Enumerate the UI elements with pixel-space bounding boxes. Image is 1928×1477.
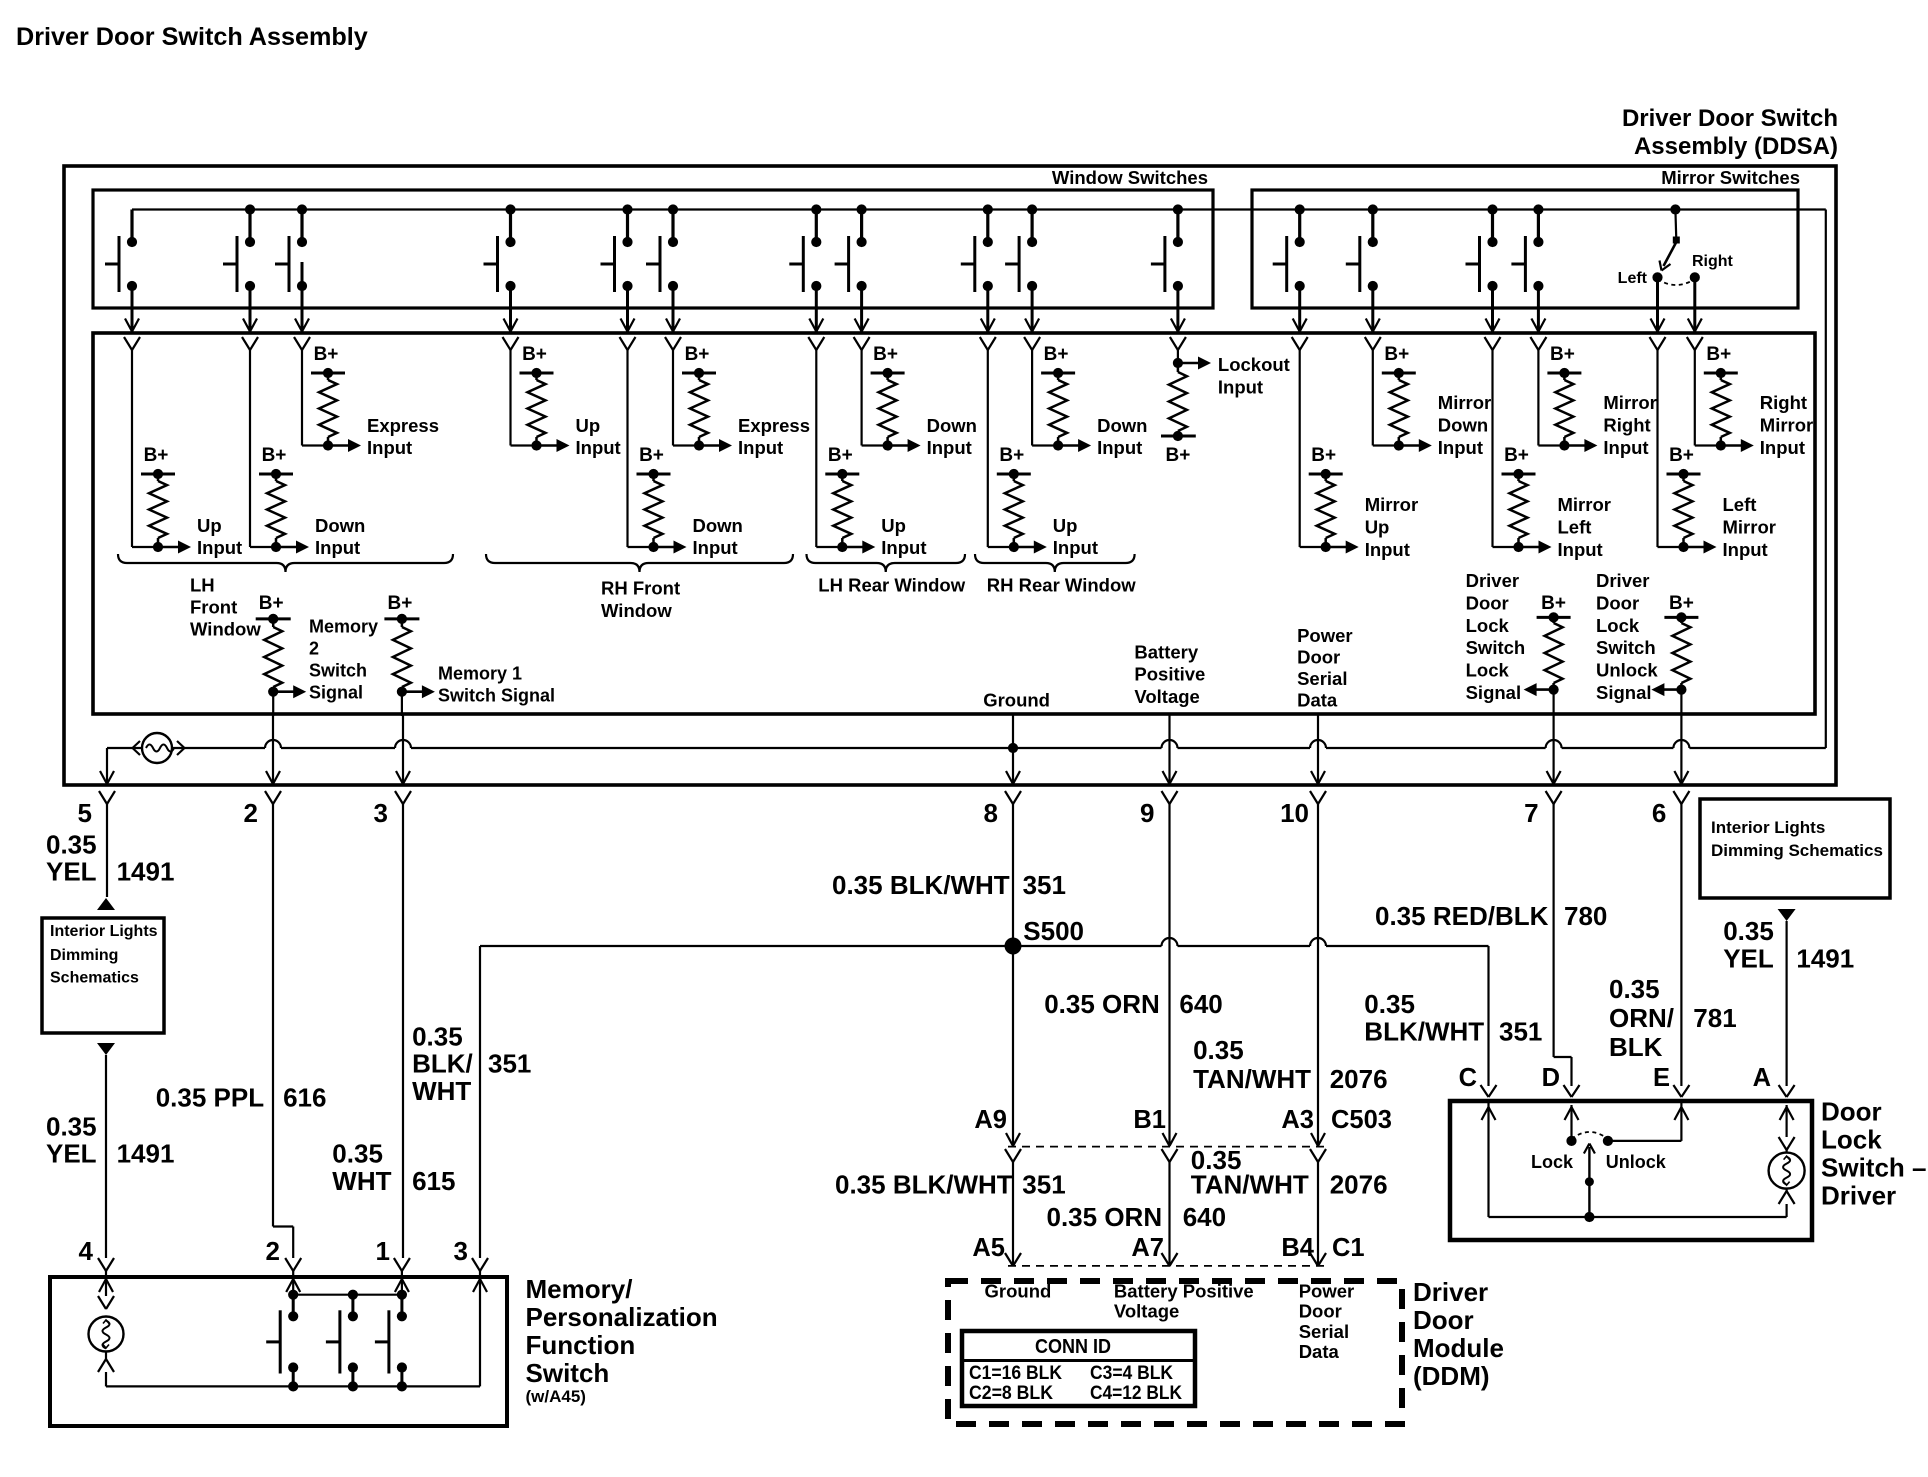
svg-text:Input: Input [1438, 437, 1483, 458]
svg-text:640: 640 [1179, 989, 1222, 1019]
label CONN ID [1035, 1336, 1111, 1358]
wire pin 7 stub [1552, 716, 1554, 785]
DDSA outer box [64, 166, 1836, 785]
label Down Input [315, 515, 365, 558]
label B1 [1133, 1106, 1166, 1134]
wire 0.35 YEL 1491 upper [106, 804, 108, 897]
svg-text:B+: B+ [1706, 344, 1731, 365]
label Up Input [197, 515, 242, 558]
svg-text:Positive: Positive [1134, 664, 1205, 685]
label Mirror Switches [1661, 167, 1800, 188]
svg-text:Mirror: Mirror [1603, 392, 1656, 413]
svg-text:7: 7 [1524, 798, 1538, 828]
label Battery Positive Voltage (DDM) [1114, 1280, 1254, 1321]
svg-text:BLK: BLK [1609, 1032, 1663, 1062]
svg-text:Input: Input [693, 537, 738, 558]
svg-text:ORN/: ORN/ [1609, 1003, 1674, 1033]
svg-text:Switch: Switch [309, 660, 367, 680]
wire pin 2 stub [272, 714, 274, 785]
svg-text:1491: 1491 [117, 857, 175, 887]
mirror switches box [1252, 190, 1798, 308]
label 0.35 ORN 640 lower [1047, 1202, 1227, 1232]
svg-text:8: 8 [984, 798, 998, 828]
wire E to unlock contact [1612, 1103, 1688, 1141]
label 0.35 BLK/WHT 351 mid [835, 1170, 1066, 1200]
svg-text:B+: B+ [1504, 445, 1529, 466]
svg-text:B+: B+ [1311, 445, 1336, 466]
wire memory pin 2 entry [286, 1271, 300, 1295]
svg-text:C1=16 BLK: C1=16 BLK [969, 1363, 1062, 1384]
label 0.35 PPL 616 [156, 1083, 327, 1113]
svg-text:A9: A9 [974, 1106, 1007, 1134]
svg-text:Lockout: Lockout [1218, 354, 1290, 375]
LH rear down switch S8 [835, 204, 867, 292]
svg-text:Signal: Signal [1596, 682, 1652, 703]
B+ terminal for R17 right mirror input [1704, 344, 1738, 378]
svg-text:780: 780 [1564, 901, 1607, 931]
svg-text:WHT: WHT [412, 1076, 471, 1106]
DDSA pin 8 [984, 771, 1021, 828]
resistor R10 down input RH rear [1049, 373, 1067, 446]
resistor R16 left mirror input [1675, 474, 1693, 547]
conn id row C4=12 BLK [1090, 1383, 1182, 1404]
connector pin A3 [1310, 1133, 1326, 1162]
wire from mirror right switch S15 into components area [1530, 286, 1546, 350]
svg-text:Window Switches: Window Switches [1052, 167, 1208, 188]
label Driver Door Switch Assembly (DDSA) [1622, 105, 1838, 160]
svg-text:6: 6 [1652, 798, 1666, 828]
wire 0.35 BLK/WHT 351 to C [1487, 946, 1489, 1086]
svg-text:C4=12 BLK: C4=12 BLK [1090, 1383, 1182, 1404]
wire memory top bus [288, 1290, 407, 1300]
svg-text:4: 4 [79, 1236, 94, 1266]
svg-text:S500: S500 [1023, 916, 1084, 946]
svg-text:Left: Left [1558, 517, 1592, 538]
B+ terminal for memory 1 signal resistor [384, 593, 419, 624]
svg-text:5: 5 [78, 798, 92, 828]
wire pin 6 stub [1680, 716, 1682, 785]
wire from RH front down switch S5 into components area [620, 286, 636, 350]
svg-text:Unlock: Unlock [1606, 1152, 1667, 1172]
svg-text:Right: Right [1603, 415, 1650, 436]
wire lamp to common [1779, 1189, 1795, 1217]
svg-text:Input: Input [1218, 376, 1263, 397]
resistor R15 mirror right input [1555, 373, 1573, 446]
wire pin 10 stub [1317, 714, 1319, 785]
svg-text:LH Rear Window: LH Rear Window [818, 574, 965, 595]
B+ terminal for R10 down input RH rear [1041, 344, 1075, 378]
off-page arrow to interior lights dimming (right) [1778, 909, 1796, 921]
DDSA pin 9 [1140, 771, 1177, 828]
memory switch SW3 [375, 1295, 407, 1392]
B+ terminal for R8 down input LH rear [871, 344, 905, 378]
wire R17 right mirror input output [1695, 350, 1754, 452]
label Right Mirror Input [1760, 392, 1813, 458]
wire R4 up input RH front output [511, 350, 570, 452]
B+ terminal for lockout resistor [1161, 431, 1196, 466]
wire from RH front up switch S4 into components area [503, 286, 519, 350]
CONN ID table box [962, 1331, 1195, 1406]
wire from LH front up switch S1 into components area [124, 286, 140, 350]
svg-text:Power: Power [1297, 625, 1353, 646]
svg-text:B+: B+ [1669, 593, 1694, 614]
pin D [1542, 1064, 1580, 1097]
label Down Input [927, 415, 977, 458]
svg-text:Front: Front [190, 597, 237, 618]
wire ground bus right drop [1825, 210, 1827, 749]
resistor R5 down input RH front [645, 474, 663, 547]
memory switch SW1 [266, 1295, 298, 1392]
wire 0.35 YEL 1491 lower [105, 1055, 107, 1258]
B+ terminal for door lock signal resistor [1537, 593, 1571, 622]
wire R10 down input RH rear output [1032, 350, 1091, 452]
resistor R9 up input RH rear [1005, 474, 1023, 547]
svg-text:Assembly (DDSA): Assembly (DDSA) [1634, 133, 1838, 160]
label 0.35 BLK/WHT 351 (memory drop) [412, 1022, 531, 1106]
svg-text:D: D [1542, 1064, 1560, 1092]
wire 0.35 PPL 616 [273, 804, 293, 1258]
svg-text:351: 351 [1023, 870, 1066, 900]
label Power Door Serial Data (DDM) [1299, 1280, 1355, 1362]
svg-text:0.35: 0.35 [46, 1112, 97, 1142]
label Driver Door Lock Switch Unlock Signal [1596, 570, 1658, 703]
components box [93, 333, 1815, 714]
driver door module box (dashed) [948, 1281, 1402, 1424]
svg-text:YEL: YEL [46, 1139, 97, 1169]
wire 0.35 RED/BLK 780 [1554, 804, 1572, 1086]
label Lock [1531, 1152, 1574, 1172]
B+ terminal for R13 mirror down input [1382, 344, 1416, 378]
svg-text:C1: C1 [1332, 1234, 1365, 1262]
svg-text:Door: Door [1466, 592, 1509, 613]
resistor R13 mirror down input [1390, 373, 1408, 446]
svg-text:CONN ID: CONN ID [1035, 1336, 1111, 1358]
label 0.35 YEL 1491 lower [46, 1112, 174, 1169]
svg-text:Unlock: Unlock [1596, 660, 1658, 681]
svg-text:Lock: Lock [1596, 615, 1640, 636]
wire R2 down input LH front output [250, 350, 309, 554]
label Memory 1 Switch Signal [438, 663, 555, 705]
svg-text:Ground: Ground [985, 1280, 1052, 1301]
svg-text:351: 351 [1499, 1017, 1542, 1047]
svg-text:Mirror: Mirror [1365, 494, 1418, 515]
svg-text:Switch –: Switch – [1821, 1153, 1926, 1183]
svg-text:TAN/WHT: TAN/WHT [1193, 1064, 1311, 1094]
B+ terminal for R7 up input LH rear [825, 445, 859, 479]
resistor R door-unlock signal [1672, 617, 1690, 689]
B+ terminal for memory 2 signal resistor [256, 593, 291, 624]
svg-text:Door: Door [1413, 1305, 1474, 1335]
svg-text:10: 10 [1280, 798, 1309, 828]
wire common bus in door lock box [1589, 1216, 1786, 1218]
door lock lever [1584, 1144, 1595, 1223]
svg-text:3: 3 [454, 1236, 468, 1266]
wire B1-A7 0.35 ORN [1168, 1162, 1170, 1266]
LH rear up switch S7 [789, 204, 821, 292]
B+ terminal for R1 up input LH front [141, 445, 175, 479]
conn id row C2=8 BLK [969, 1383, 1053, 1404]
svg-text:Input: Input [576, 437, 621, 458]
svg-text:Schematics: Schematics [50, 970, 139, 987]
svg-text:Input: Input [1603, 437, 1648, 458]
label Express Input [738, 415, 810, 458]
wire from mirror select left contact into components area [1650, 277, 1666, 350]
svg-text:RH Rear Window: RH Rear Window [987, 574, 1136, 595]
window switches box [93, 190, 1213, 308]
resistor R4 up input RH front [528, 373, 546, 446]
B+ terminal for R16 left mirror input [1667, 445, 1701, 479]
svg-text:Mirror Switches: Mirror Switches [1661, 167, 1800, 188]
svg-text:B+: B+ [873, 344, 898, 365]
svg-text:0.35: 0.35 [1193, 1035, 1244, 1065]
B+ terminal for R3 express input LH front [311, 344, 345, 378]
label RH Front Window [601, 578, 680, 622]
wire R16 left mirror input output [1658, 350, 1717, 554]
B+ terminal for R12 mirror up input [1309, 445, 1343, 479]
wire pin 8 stub [1012, 714, 1014, 785]
svg-text:0.35 ORN: 0.35 ORN [1044, 989, 1160, 1019]
svg-text:Personalization: Personalization [526, 1302, 718, 1332]
label 0.35 RED/BLK 780 [1375, 901, 1607, 931]
door lock switch box [1450, 1101, 1812, 1240]
svg-text:Battery: Battery [1134, 641, 1198, 662]
label Ground (DDSA pin 8) [983, 690, 1050, 711]
svg-text:Up: Up [1365, 517, 1390, 538]
connector pin B1 [1162, 1133, 1178, 1162]
wire door lock signal output [1524, 683, 1559, 716]
resistor memory 2 switch signal [264, 619, 282, 692]
svg-text:Interior Lights: Interior Lights [50, 923, 158, 940]
svg-text:Input: Input [1365, 539, 1410, 560]
resistor R17 right mirror input [1712, 373, 1730, 446]
DDSA pin 2 [244, 771, 281, 828]
wire R15 mirror right input output [1538, 350, 1597, 452]
svg-text:Serial: Serial [1297, 668, 1347, 689]
wire memory pin 4 to lamp [98, 1271, 114, 1309]
label 0.35 ORN/BLK 781 [1609, 974, 1737, 1062]
svg-text:Lock: Lock [1466, 615, 1510, 636]
lockout switch S11 [1151, 204, 1183, 292]
label A3 [1281, 1106, 1314, 1134]
label Interior Lights Dimming Schematics (left) [50, 923, 158, 987]
label 0.35 TAN/WHT 2076 upper [1193, 1035, 1387, 1094]
wire from mirror down switch S13 into components area [1365, 286, 1381, 350]
svg-text:B+: B+ [639, 445, 664, 466]
label Driver Door Module (DDM) [1413, 1277, 1504, 1391]
svg-text:0.35 RED/BLK: 0.35 RED/BLK [1375, 901, 1549, 931]
svg-text:Door: Door [1299, 1301, 1342, 1322]
wire C inside door lock box [1482, 1103, 1590, 1217]
label Up Input [881, 515, 926, 558]
resistor R2 down input LH front [267, 474, 285, 547]
wire from RH rear down switch S10 into components area [1024, 286, 1040, 350]
svg-text:B+: B+ [144, 445, 169, 466]
memory switch SW2 [326, 1295, 358, 1392]
svg-text:0.35: 0.35 [1723, 916, 1774, 946]
wire from mirror left switch S14 into components area [1485, 286, 1501, 350]
label Up Input [1053, 515, 1098, 558]
svg-text:Memory: Memory [309, 616, 378, 636]
wire R14 mirror left input output [1493, 350, 1552, 554]
label 0.35 TAN/WHT 2076 lower [1191, 1145, 1388, 1199]
mirror left switch S14 [1466, 204, 1498, 292]
svg-text:Lock: Lock [1531, 1152, 1574, 1172]
mirror right switch S15 [1511, 204, 1543, 292]
svg-text:B+: B+ [1044, 344, 1069, 365]
wire 0.35 TAN/WHT 2076 serial run [1317, 804, 1319, 1145]
wire from LH front down switch S2 into components area [242, 286, 258, 350]
svg-text:LH: LH [190, 575, 215, 596]
svg-text:Dimming: Dimming [50, 947, 118, 964]
svg-text:Input: Input [315, 537, 360, 558]
wire memory pin 3 to bus [473, 1271, 487, 1386]
brace LH rear window group [807, 554, 966, 572]
svg-text:Switch: Switch [1596, 637, 1656, 658]
label A9 [974, 1106, 1007, 1134]
LH front express switch S3 [275, 204, 307, 292]
wire memory pin 3 drop 0.35 BLK/WHT 351 [479, 946, 481, 1258]
pin E [1653, 1064, 1689, 1097]
illumination lamp in ground feed [133, 733, 185, 763]
wire S500 splice run [480, 938, 1489, 946]
DDSA pin 3 [374, 771, 411, 828]
label Interior Lights Dimming Schematics (right) [1711, 818, 1883, 860]
svg-text:Up: Up [576, 415, 601, 436]
connector row C1 dashed line [1008, 1265, 1325, 1267]
wire R13 mirror down input output [1373, 350, 1432, 452]
svg-text:Left: Left [1618, 270, 1648, 287]
svg-text:Input: Input [367, 437, 412, 458]
svg-text:Driver Door Switch: Driver Door Switch [1622, 105, 1838, 132]
svg-text:615: 615 [412, 1166, 455, 1196]
svg-text:Input: Input [1558, 539, 1603, 560]
resistor R6 express input RH front [690, 373, 708, 446]
svg-text:TAN/WHT: TAN/WHT [1191, 1170, 1309, 1200]
svg-text:9: 9 [1140, 798, 1154, 828]
wire pin 5 stub [106, 748, 108, 785]
svg-text:Window: Window [190, 619, 261, 640]
memory personalization function switch box [50, 1277, 507, 1426]
wire from lockout switch S11 into components area [1170, 286, 1186, 350]
svg-text:Interior Lights: Interior Lights [1711, 818, 1825, 837]
wire 0.35 ORN 640 battery run [1168, 804, 1170, 1145]
svg-text:Input: Input [1723, 539, 1768, 560]
wire lockout input output [1173, 350, 1211, 370]
connector pin A5 [1005, 1253, 1021, 1266]
svg-text:B+: B+ [828, 445, 853, 466]
svg-text:Right: Right [1692, 253, 1734, 270]
wire memory 2 switch signal output [268, 685, 306, 716]
svg-text:Express: Express [367, 415, 439, 436]
label Ground (DDM) [985, 1280, 1052, 1301]
memory illumination lamp [89, 1317, 124, 1352]
svg-text:E: E [1653, 1064, 1670, 1092]
svg-text:Driver: Driver [1413, 1277, 1488, 1307]
wire from RH rear up switch S9 into components area [980, 286, 996, 350]
svg-text:YEL: YEL [46, 857, 97, 887]
label Mirror Right Input [1603, 392, 1656, 458]
svg-text:B+: B+ [387, 593, 412, 614]
resistor R7 up input LH rear [833, 474, 851, 547]
wire from LH rear up switch S7 into components area [808, 286, 824, 350]
svg-text:Battery Positive: Battery Positive [1114, 1280, 1254, 1301]
svg-text:B+: B+ [999, 445, 1024, 466]
svg-text:0.35: 0.35 [1609, 974, 1660, 1004]
svg-text:Signal: Signal [309, 682, 363, 702]
node unlock contact [1603, 1136, 1613, 1146]
svg-text:Driver: Driver [1466, 570, 1519, 591]
label A7 [1131, 1234, 1164, 1262]
svg-text:2: 2 [244, 798, 258, 828]
svg-text:0.35 BLK/WHT: 0.35 BLK/WHT [832, 870, 1010, 900]
svg-text:Ground: Ground [983, 690, 1050, 711]
svg-text:Voltage: Voltage [1114, 1301, 1179, 1322]
B+ terminal for R2 down input LH front [259, 445, 293, 479]
wire door unlock signal output [1651, 683, 1686, 716]
svg-text:781: 781 [1693, 1003, 1736, 1033]
DDSA pin 5 [78, 771, 115, 828]
svg-text:Serial: Serial [1299, 1321, 1349, 1342]
svg-text:Signal: Signal [1466, 682, 1522, 703]
svg-text:0.35 ORN: 0.35 ORN [1047, 1202, 1163, 1232]
wire A3-B4 0.35 TAN/WHT [1317, 1162, 1319, 1266]
connector pin A9 [1005, 1133, 1021, 1162]
svg-text:Down: Down [315, 515, 365, 536]
DDSA pin 10 [1280, 771, 1326, 828]
mirror up switch S12 [1273, 204, 1305, 292]
wire A to lamp [1779, 1105, 1795, 1153]
conn id row C1=16 BLK [969, 1363, 1062, 1384]
door lock illumination lamp [1769, 1153, 1805, 1189]
label 0.35 YEL 1491 upper [46, 830, 174, 887]
wire from LH rear down switch S8 into components area [854, 286, 870, 350]
svg-text:Door: Door [1596, 592, 1639, 613]
svg-text:Module: Module [1413, 1333, 1504, 1363]
svg-text:0.35: 0.35 [1364, 989, 1415, 1019]
wire A9-A5 0.35 BLK/WHT [1012, 1162, 1014, 1266]
label 0.35 BLK/WHT 351 upper [832, 870, 1066, 900]
svg-text:1: 1 [376, 1236, 390, 1266]
node S500 [1005, 916, 1085, 954]
svg-text:0.35: 0.35 [412, 1022, 463, 1052]
label Mirror Down Input [1438, 392, 1491, 458]
svg-text:0.35: 0.35 [332, 1139, 383, 1169]
svg-text:0.35 BLK/WHT: 0.35 BLK/WHT [835, 1170, 1013, 1200]
svg-text:1491: 1491 [117, 1139, 175, 1169]
label LH Rear Window [818, 574, 965, 595]
resistor R11 lockout [1169, 363, 1187, 436]
svg-text:B+: B+ [259, 593, 284, 614]
memory pin 2 [266, 1236, 302, 1271]
svg-text:Left: Left [1723, 494, 1757, 515]
wire R6 express input RH front output [673, 350, 732, 452]
svg-text:B+: B+ [1384, 344, 1409, 365]
svg-text:Input: Input [197, 537, 242, 558]
B+ terminal for R15 mirror right input [1547, 344, 1581, 378]
svg-text:Down: Down [1097, 415, 1147, 436]
svg-text:B4: B4 [1281, 1234, 1314, 1262]
svg-text:0.35 PPL: 0.35 PPL [156, 1083, 265, 1113]
svg-text:Input: Input [1760, 437, 1805, 458]
resistor R door-lock signal [1545, 617, 1563, 689]
svg-text:Mirror: Mirror [1760, 415, 1813, 436]
svg-text:Switch: Switch [526, 1358, 610, 1388]
svg-text:Memory 1: Memory 1 [438, 663, 522, 683]
svg-text:Power: Power [1299, 1280, 1355, 1301]
label C1 [1332, 1234, 1365, 1262]
label B4 [1281, 1234, 1314, 1262]
resistor R14 mirror left input [1510, 474, 1528, 547]
